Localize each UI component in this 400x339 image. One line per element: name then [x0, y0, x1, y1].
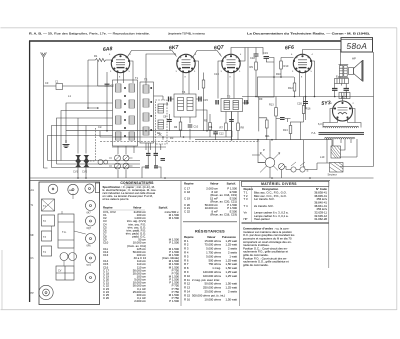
- field coil Exc: [335, 75, 349, 84]
- block T3 layout: [42, 231, 52, 241]
- svg-text:R4: R4: [209, 125, 213, 129]
- svg-text:C 18: C 18: [184, 190, 190, 194]
- capacitor C17: [245, 100, 247, 105]
- resistor R16: [302, 106, 311, 114]
- capacitor C9: [163, 116, 172, 122]
- resistor R1: [94, 54, 105, 62]
- wire 6K7 pins down: [183, 61, 199, 94]
- right border wire: [340, 52, 374, 166]
- svg-text:T 3: T 3: [244, 197, 248, 201]
- wire bus drops: [100, 131, 332, 146]
- capacitor C10: [188, 125, 199, 129]
- wire C1 to coil block: [63, 85, 114, 87]
- svg-text:Spécif.: Spécif.: [159, 206, 169, 210]
- wire det bottom: [226, 131, 238, 140]
- svg-text:R9: R9: [259, 97, 263, 101]
- output transformer T6: [339, 65, 349, 78]
- capacitor C11: [229, 120, 234, 122]
- wire gang feeds: [78, 118, 86, 154]
- svg-text:2.000 cm: 2.000 cm: [134, 299, 146, 303]
- HP circle layout: [39, 285, 53, 299]
- socket 6K7 layout: [86, 201, 96, 215]
- tone loop: [283, 122, 301, 140]
- wire 6K7 plate to 6Q7: [193, 51, 222, 58]
- block T4 layout: [42, 246, 52, 256]
- wire pot: [252, 140, 286, 178]
- wire antenna lead down: [43, 60, 45, 168]
- leader labels: [31, 189, 35, 295]
- wire R4b: [203, 73, 205, 131]
- svg-text:Repère: Repère: [184, 182, 194, 186]
- IF can T3 shield: [140, 82, 154, 143]
- svg-text:6A8: 6A8: [103, 46, 113, 53]
- padder C8: [161, 159, 166, 161]
- resistor R10: [280, 61, 289, 69]
- svg-text:1,25 watt: 1,25 watt: [225, 274, 237, 278]
- svg-text:R12: R12: [288, 86, 293, 90]
- svg-text:C19: C19: [263, 51, 268, 55]
- svg-text:HP: HP: [352, 57, 356, 61]
- wire coil leads left: [48, 62, 113, 168]
- svg-text:58oA: 58oA: [347, 42, 368, 51]
- svg-text:CV2: CV2: [82, 170, 88, 174]
- svg-text:La Documentation du Technicien: La Documentation du Technicien Radio. — …: [247, 32, 370, 36]
- socket spare layout: [86, 273, 96, 283]
- volume feed network: [259, 97, 268, 140]
- wire cathode R12: [294, 77, 296, 97]
- wire transformer taps: [323, 123, 361, 128]
- capacitor C16: [216, 100, 218, 105]
- capacitor C24: [280, 118, 285, 120]
- svg-text:C 26: C 26: [103, 296, 109, 300]
- oscillator coils: [158, 104, 164, 136]
- wire IF2 leads: [170, 99, 208, 140]
- svg-text:6K7: 6K7: [169, 45, 180, 52]
- wire left risers join: [44, 161, 141, 169]
- svg-text:P 1.500: P 1.500: [169, 299, 179, 303]
- bus MF lines: [100, 131, 332, 140]
- svg-text:C13: C13: [103, 253, 109, 257]
- socket top layout: [68, 184, 78, 194]
- capacitor C22: [344, 89, 350, 91]
- svg-text:R9: R9: [250, 65, 254, 69]
- wire C12: [215, 131, 217, 140]
- svg-text:6F6: 6F6: [285, 45, 295, 52]
- svg-text:2 watts: 2 watts: [228, 290, 238, 294]
- svg-text:6K7: 6K7: [87, 211, 92, 214]
- svg-text:6Q7: 6Q7: [87, 227, 92, 230]
- svg-text:10.000 ohms: 10.000 ohms: [205, 297, 222, 301]
- tuning gang CV1: [73, 155, 81, 174]
- svg-text:31.062-28: 31.062-28: [314, 217, 327, 221]
- svg-text:R 16: R 16: [184, 297, 190, 301]
- capacitor C21: [332, 89, 338, 91]
- resistor R8: [237, 123, 245, 131]
- CV gang layout: [56, 266, 74, 280]
- svg-text:T5: T5: [227, 94, 231, 98]
- pin numbers: [109, 54, 355, 105]
- svg-text:Haut-parleur: Haut-parleur: [254, 217, 270, 221]
- wire det chain: [231, 112, 233, 140]
- voltage selector block: [331, 146, 341, 158]
- wire grid 6F6: [274, 58, 294, 78]
- bottom bus wires: [30, 178, 374, 180]
- socket 6Q7 layout: [86, 216, 96, 230]
- resistor R6: [174, 122, 182, 130]
- svg-text:C12: C12: [219, 133, 224, 136]
- resistor R12: [288, 83, 296, 91]
- wire IF1 top to grid cap 6K7: [146, 54, 176, 85]
- svg-text:R11: R11: [265, 134, 270, 138]
- tube V2 6K7: [177, 54, 196, 72]
- svg-text:MATÉRIEL DIVERS: MATÉRIEL DIVERS: [261, 181, 297, 186]
- capacitor C2: [105, 84, 115, 88]
- svg-text:R1: R1: [94, 54, 98, 58]
- svg-text:C15: C15: [203, 98, 208, 102]
- svg-text:MF: MF: [31, 235, 35, 237]
- dial cord dashed: [90, 128, 96, 161]
- wire 6A8 cathode down: [106, 72, 108, 131]
- capacitor C20: [297, 102, 308, 106]
- volume pot P: [258, 148, 285, 172]
- svg-text:C1: C1: [55, 80, 59, 84]
- wire switch: [286, 163, 330, 170]
- tuning gang CV2: [82, 155, 89, 174]
- svg-text:1,50 watt: 1,50 watt: [225, 297, 237, 301]
- resistor R4b: [202, 80, 205, 88]
- svg-text:Ant: Ant: [31, 189, 35, 192]
- coil block T1: [113, 80, 138, 146]
- dial box: [95, 183, 99, 193]
- power transformer secondary: [325, 137, 355, 138]
- tube V4 6F6: [293, 54, 312, 72]
- svg-text:M 1.500: M 1.500: [169, 216, 180, 220]
- power transformer T7 primary: [323, 126, 359, 127]
- svg-text:L10: L10: [320, 155, 325, 159]
- resistor R13: [269, 104, 277, 117]
- wire AVC net: [256, 48, 263, 97]
- wire filter: [335, 84, 347, 97]
- transformer TA layout: [58, 214, 74, 248]
- svg-text:C 22: C 22: [184, 209, 190, 213]
- svg-text:R. A. B. — 59, Rue des Batigno: R. A. B. — 59, Rue des Batignolles, Pari…: [29, 32, 150, 36]
- svg-text:C13: C13: [214, 72, 219, 76]
- chassis outline: [39, 182, 100, 305]
- wire selector: [341, 146, 358, 157]
- wire tone: [305, 97, 307, 121]
- svg-text:Exc.: Exc.: [336, 75, 341, 79]
- svg-text:(Reun. av. C18, C19): (Reun. av. C18, C19): [210, 213, 237, 217]
- resistor R9: [250, 62, 258, 70]
- wire 6Q7 pins down: [218, 61, 234, 99]
- svg-text:Repère: Repère: [103, 206, 113, 210]
- svg-text:R10: R10: [276, 72, 281, 76]
- wire gang bottom: [78, 167, 86, 178]
- transformer core: [319, 133, 365, 135]
- svg-text:T4: T4: [182, 90, 186, 94]
- svg-text:HP: HP: [31, 293, 35, 295]
- svg-text:R2: R2: [157, 131, 161, 135]
- svg-text:Spécif.: Spécif.: [227, 182, 237, 186]
- wire det leads: [226, 103, 248, 140]
- svg-text:HP: HP: [244, 217, 248, 221]
- resistor R5: [204, 120, 211, 131]
- svg-text:R3: R3: [170, 136, 174, 140]
- svg-text:T.A.: T.A.: [311, 131, 316, 135]
- IF transformer T3: [143, 78, 152, 136]
- wire coil bottom leads: [118, 146, 134, 178]
- heater dashed: [100, 141, 260, 143]
- junction dots: [77, 76, 347, 179]
- speaker HP: [349, 57, 363, 82]
- resistor R7: [220, 123, 228, 131]
- oscillator trimmer C7: [123, 163, 129, 169]
- svg-text:R14: R14: [283, 129, 288, 132]
- socket 6F6 layout: [86, 234, 96, 248]
- choke box: [339, 93, 350, 99]
- switch S lamps: [291, 162, 309, 173]
- svg-text:1er transfo. M.F.: 1er transfo. M.F.: [254, 197, 275, 201]
- svg-text:R8: R8: [241, 126, 245, 130]
- tube V1 6A8: [111, 54, 130, 72]
- svg-text:CV: CV: [58, 270, 62, 273]
- wire secondary leads: [327, 139, 357, 163]
- svg-text:(imprimerie TSF48), in extenso: (imprimerie TSF48), in extenso: [168, 31, 205, 35]
- capacitor C18: [254, 54, 259, 56]
- wire grid return down: [88, 60, 98, 108]
- svg-text:T.A.: T.A.: [62, 230, 67, 234]
- tube V3 6Q7: [222, 54, 241, 72]
- padder trimmer: [146, 154, 158, 156]
- wire 5Y3 to transformer: [330, 97, 355, 123]
- chassis wiring: [52, 194, 86, 266]
- svg-text:C 19: C 19: [184, 196, 190, 200]
- svg-text:P: P: [263, 148, 265, 152]
- block T1 layout: [42, 199, 55, 211]
- wire osc section: [109, 143, 161, 178]
- svg-text:2e transfo. M.F.: 2e transfo. M.F.: [254, 204, 274, 208]
- wire 6F6 pins down: [300, 61, 315, 109]
- svg-text:6F6: 6F6: [87, 244, 92, 247]
- svg-text:S: S: [307, 169, 309, 173]
- wire coupling: [266, 58, 274, 78]
- svg-text:5Y3: 5Y3: [87, 264, 92, 267]
- tube V5 5Y3: [333, 101, 353, 121]
- wire grid lead 6A8: [88, 59, 112, 61]
- wire antenna to coil: [44, 85, 57, 87]
- oscillator trimmer C6: [115, 163, 121, 169]
- wire R13: [275, 97, 277, 140]
- svg-text:6,3 v: 6,3 v: [318, 122, 324, 126]
- svg-text:C3: C3: [45, 81, 49, 85]
- wire 6A8 pins down: [118, 61, 134, 83]
- svg-text:6Q7: 6Q7: [214, 45, 225, 52]
- svg-text:C20: C20: [297, 102, 302, 106]
- svg-text:Vn: Vn: [244, 211, 248, 215]
- svg-text:R13: R13: [269, 104, 274, 107]
- wire AVC diode: [245, 48, 256, 104]
- svg-text:C10: C10: [194, 126, 199, 129]
- can C18 layout: [60, 253, 77, 261]
- wire 6F6 plate to output: [303, 50, 341, 66]
- loop rect wire: [258, 77, 275, 97]
- svg-text:T 4: T 4: [244, 204, 248, 208]
- svg-text:Cd: Cd: [98, 125, 102, 129]
- dial lamp: [98, 160, 108, 165]
- knob circle A: [48, 184, 58, 194]
- svg-text:grille de commande.: grille de commande.: [243, 263, 269, 267]
- mains block: [330, 163, 344, 173]
- svg-text:Secteur: Secteur: [328, 173, 337, 177]
- svg-text:C18: C18: [250, 56, 255, 60]
- antenna: [41, 53, 47, 61]
- IF transformer T5: [221, 94, 243, 111]
- wire R5: [209, 114, 211, 137]
- svg-text:C10: C10: [103, 241, 109, 245]
- wire 6Q7 top AVC run: [231, 48, 245, 62]
- svg-text:R16: R16: [306, 108, 311, 111]
- IF transformer T4: [174, 90, 196, 117]
- capacitor C15: [199, 97, 209, 102]
- wire R16: [301, 97, 306, 167]
- capacitor C1: [55, 80, 63, 90]
- oscillator can shield: [156, 100, 168, 144]
- small labels: [45, 56, 325, 159]
- svg-text:5Y3: 5Y3: [321, 100, 331, 107]
- svg-text:et les valeurs pour E.: et les valeurs pour E.: [103, 197, 130, 201]
- svg-text:RÉSISTANCES: RÉSISTANCES: [195, 229, 225, 234]
- padder blobs: [145, 166, 158, 168]
- svg-text:R10: R10: [284, 64, 289, 68]
- svg-text:P 1.500: P 1.500: [169, 241, 179, 245]
- B+ rail: [242, 96, 374, 98]
- svg-text:C14: C14: [164, 102, 169, 106]
- wire 6A8 plate to top rail: [127, 51, 177, 58]
- capacitor C12: [213, 132, 224, 136]
- svg-text:R7: R7: [220, 126, 224, 130]
- socket 5Y3 layout: [86, 253, 96, 267]
- wire IF1 leads down: [112, 96, 166, 150]
- capacitor C14: [164, 97, 171, 106]
- svg-text:Valeur: Valeur: [210, 182, 219, 186]
- ground chassis: [63, 140, 70, 148]
- wire C24: [276, 119, 291, 123]
- oscillator trimmer C5: [123, 155, 129, 161]
- wire C9: [168, 114, 170, 131]
- socket 6A8 layout: [85, 184, 94, 193]
- oscillator trimmer C4: [115, 155, 121, 161]
- capacitor C19: [263, 51, 269, 58]
- block T2 layout: [42, 215, 55, 226]
- svg-text:Valeur: Valeur: [133, 206, 142, 210]
